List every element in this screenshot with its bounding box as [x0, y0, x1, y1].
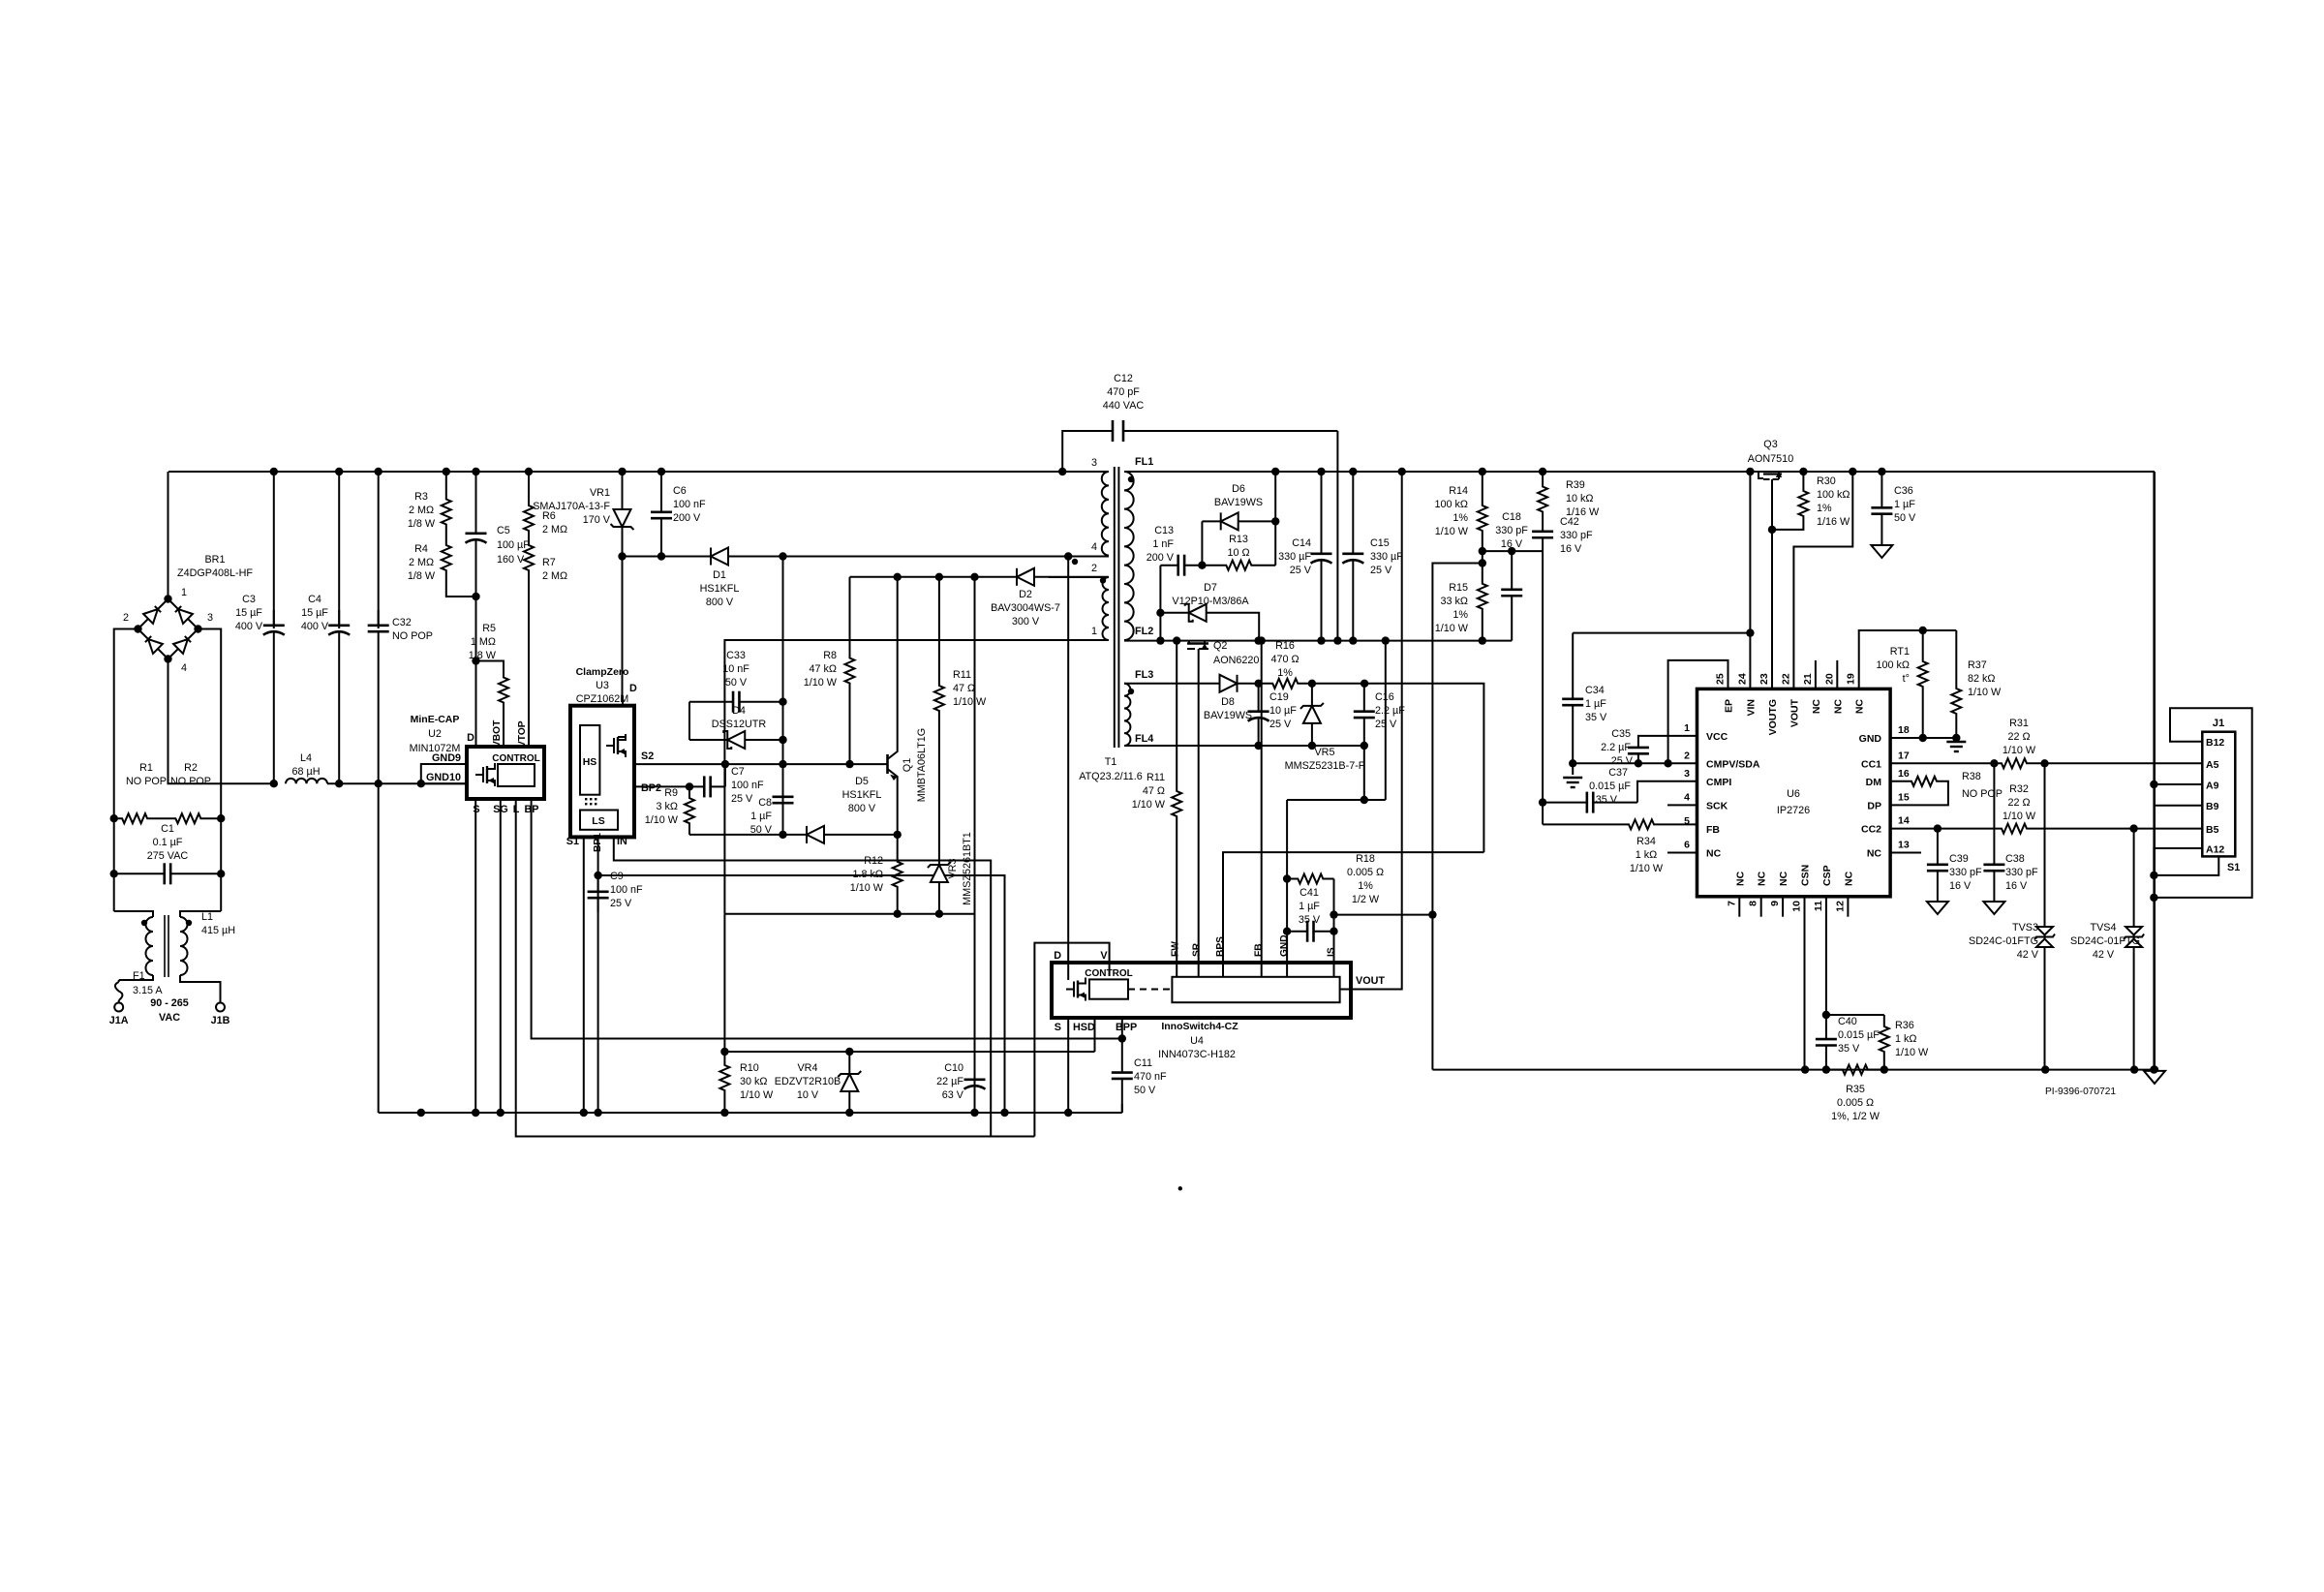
- wire SCK stub: [1667, 804, 1697, 806]
- wire U4 BPP pin down: [1121, 1018, 1123, 1039]
- wire right rail down to J1 area: [2154, 472, 2156, 1070]
- svg-text:1%, 1/2 W: 1%, 1/2 W: [1831, 1111, 1881, 1122]
- svg-text:100 µF: 100 µF: [497, 539, 530, 551]
- svg-text:CC1: CC1: [1861, 758, 1881, 770]
- svg-text:160 V: 160 V: [497, 554, 525, 566]
- svg-text:T1: T1: [1105, 756, 1117, 768]
- wire VCC line with C35: [1638, 736, 1697, 738]
- svg-text:B5: B5: [2206, 824, 2219, 836]
- svg-text:0.015 µF: 0.015 µF: [1838, 1029, 1880, 1041]
- wire VOUT pin column jog: [1793, 472, 1852, 689]
- svg-text:VBOT: VBOT: [492, 719, 503, 748]
- svg-text:J1B: J1B: [211, 1015, 230, 1026]
- svg-text:C33: C33: [726, 650, 746, 661]
- svg-text:25 V: 25 V: [610, 898, 632, 909]
- wire Q1 emitter to D5 line: [897, 784, 899, 835]
- svg-text:25 V: 25 V: [1375, 719, 1397, 730]
- svg-text:6: 6: [1684, 840, 1690, 851]
- wire C33 left bracket: [688, 702, 690, 740]
- svg-text:C6: C6: [673, 485, 687, 497]
- svg-text:PI-9396-070721: PI-9396-070721: [2045, 1087, 2116, 1097]
- capacitor C12 Y-cap: [1062, 431, 1113, 472]
- wire J1 B12 outer loop: [2154, 708, 2251, 898]
- svg-text:22 Ω: 22 Ω: [2007, 731, 2030, 743]
- svg-text:SD24C-01FTG: SD24C-01FTG: [1969, 935, 2038, 947]
- svg-text:20: 20: [1823, 673, 1835, 685]
- wire L1 left lead to F1: [119, 975, 153, 980]
- svg-text:C8: C8: [758, 797, 772, 809]
- svg-text:0.015 µF: 0.015 µF: [1589, 781, 1631, 792]
- wire D6R13 column to FL1: [1274, 472, 1276, 566]
- wire U2 S pin down: [474, 799, 476, 1113]
- IC U6 IP2726: [1697, 689, 1891, 896]
- svg-text:3.15 A: 3.15 A: [133, 985, 163, 996]
- svg-text:C10: C10: [944, 1062, 963, 1074]
- wire GND9: [421, 764, 467, 783]
- resistor R16 470: [1259, 679, 1312, 689]
- wire C10 column: [974, 577, 976, 1113]
- svg-text:330 pF: 330 pF: [1949, 867, 1982, 878]
- svg-text:J1A: J1A: [109, 1015, 129, 1026]
- svg-text:CSN: CSN: [1800, 865, 1812, 886]
- IC U3 ClampZero CPZ1062M: [570, 706, 634, 838]
- wire clamp column lower: [782, 702, 784, 835]
- svg-text:VR4: VR4: [797, 1062, 817, 1074]
- capacitor C1: [114, 873, 165, 874]
- wire FB pin up to FL2: [1261, 641, 1263, 977]
- svg-text:8: 8: [1748, 901, 1759, 906]
- wire VR1 to U3 D: [622, 557, 624, 696]
- capacitor C10: [974, 1065, 976, 1080]
- svg-text:U6: U6: [1787, 788, 1800, 800]
- wire FB line: [1543, 823, 1612, 825]
- wire FL3 line: [1124, 683, 1206, 685]
- wire J1 B9: [2154, 805, 2202, 807]
- svg-text:NO POP: NO POP: [126, 776, 167, 787]
- svg-text:C16: C16: [1375, 691, 1394, 703]
- svg-text:C19: C19: [1269, 691, 1289, 703]
- transformer T1 ATQ23.2/11.6: [1102, 472, 1109, 556]
- wire GND10 rail: [327, 782, 467, 784]
- svg-text:R32: R32: [2009, 783, 2029, 795]
- wire U2 L pin down to line2: [516, 799, 1035, 1137]
- svg-text:200 V: 200 V: [673, 512, 701, 524]
- svg-text:NC: NC: [1778, 871, 1789, 886]
- svg-text:100 kΩ: 100 kΩ: [1817, 489, 1850, 501]
- svg-text:A9: A9: [2206, 781, 2219, 792]
- svg-text:C15: C15: [1370, 537, 1390, 549]
- wire R39C42 column down to R34/FB: [1542, 551, 1544, 824]
- capacitor C18: [1511, 551, 1513, 590]
- svg-text:100 kΩ: 100 kΩ: [1435, 499, 1468, 510]
- svg-text:NO POP: NO POP: [170, 776, 211, 787]
- wire U2 SG pin down: [500, 799, 502, 1113]
- svg-text:22 µF: 22 µF: [936, 1076, 963, 1087]
- wire S2 line: [634, 763, 885, 765]
- wire CSN column: [1804, 897, 1806, 1070]
- svg-text:S1: S1: [2227, 862, 2240, 873]
- wire VIN column: [1749, 472, 1751, 689]
- svg-text:C14: C14: [1292, 537, 1311, 549]
- wire CC2 line: [1890, 828, 1995, 830]
- svg-text:R30: R30: [1817, 475, 1836, 487]
- svg-text:42 V: 42 V: [2093, 949, 2115, 961]
- wire T1 pin1 to 943 line: [724, 640, 1109, 914]
- svg-text:12: 12: [1834, 901, 1846, 912]
- svg-text:C5: C5: [497, 525, 510, 536]
- svg-text:275 VAC: 275 VAC: [147, 850, 189, 862]
- svg-text:24: 24: [1736, 673, 1748, 685]
- capacitor C42: [1542, 518, 1544, 532]
- svg-text:400 V: 400 V: [301, 621, 329, 632]
- transistor Q2 AON6220 sync FET: [1188, 641, 1190, 644]
- svg-text:1 µF: 1 µF: [1585, 698, 1606, 710]
- wire junction line C18: [1483, 550, 1543, 552]
- svg-text:CPZ1062M: CPZ1062M: [576, 693, 629, 705]
- svg-text:VAC: VAC: [159, 1012, 180, 1024]
- wire BR1 pin4 to GND10 rail: [168, 659, 274, 784]
- svg-text:23: 23: [1758, 673, 1770, 685]
- svg-text:35 V: 35 V: [1585, 712, 1607, 723]
- svg-text:TVS4: TVS4: [2090, 922, 2116, 934]
- svg-text:50 V: 50 V: [1894, 512, 1916, 524]
- svg-text:16 V: 16 V: [1501, 538, 1523, 550]
- svg-text:D6: D6: [1232, 483, 1245, 495]
- svg-text:1 µF: 1 µF: [750, 811, 772, 822]
- svg-text:25 V: 25 V: [1290, 565, 1312, 576]
- svg-text:1/10 W: 1/10 W: [1630, 863, 1664, 874]
- svg-text:R5: R5: [482, 623, 496, 634]
- fuse F1: [118, 980, 120, 982]
- wire J1 A12: [2154, 848, 2202, 875]
- transistor Q1 MMBTA06LT1G: [885, 763, 888, 765]
- wire R4 to C5 node: [446, 581, 476, 597]
- svg-text:300 V: 300 V: [1012, 616, 1040, 628]
- svg-text:35 V: 35 V: [1299, 914, 1321, 926]
- svg-text:200 V: 200 V: [1147, 552, 1175, 564]
- capacitor C39: [1937, 829, 1939, 850]
- wire NC19 to RT1 line: [1859, 630, 1957, 689]
- svg-text:BAV3004WS-7: BAV3004WS-7: [991, 602, 1060, 614]
- svg-text:NC: NC: [1811, 699, 1822, 715]
- resistor R34: [1612, 819, 1670, 829]
- svg-text:1%: 1%: [1358, 880, 1373, 892]
- svg-text:VIN: VIN: [1745, 699, 1757, 717]
- svg-text:25 V: 25 V: [1611, 755, 1634, 767]
- svg-text:1/8 W: 1/8 W: [469, 650, 497, 661]
- svg-text:NC: NC: [1757, 871, 1768, 886]
- resistor R7: [524, 535, 534, 581]
- diode D2 BAV3004WS-7 300 V: [850, 576, 1003, 578]
- resistor R2 NO POP: [156, 813, 222, 823]
- svg-text:50 V: 50 V: [725, 677, 748, 689]
- svg-text:NO POP: NO POP: [392, 630, 433, 642]
- svg-text:3: 3: [207, 612, 213, 624]
- wire drain column to U4 D pin: [1067, 557, 1069, 981]
- svg-text:C37: C37: [1608, 767, 1628, 779]
- svg-text:AON7510: AON7510: [1748, 453, 1793, 465]
- svg-text:EP: EP: [1724, 699, 1735, 713]
- svg-text:9: 9: [1769, 901, 1781, 906]
- resistor R35 shunt: [1826, 1065, 1884, 1075]
- wire VOUTG column: [1771, 487, 1773, 689]
- svg-text:1%: 1%: [1452, 609, 1468, 621]
- wire GND10 into U2: [421, 782, 467, 784]
- svg-text:EDZVT2R10B: EDZVT2R10B: [775, 1076, 841, 1087]
- capacitor C37: [1543, 802, 1587, 804]
- svg-text:10 Ω: 10 Ω: [1227, 547, 1249, 559]
- resistor R30: [1802, 472, 1804, 484]
- svg-text:1/2 W: 1/2 W: [1352, 894, 1380, 905]
- wire C9 node to ground bus: [598, 875, 1005, 1113]
- svg-text:16 V: 16 V: [2005, 880, 2028, 892]
- svg-text:14: 14: [1898, 815, 1910, 827]
- capacitor C40: [1825, 1015, 1827, 1039]
- capacitor C41: [1287, 931, 1307, 933]
- wire clamp column: [782, 557, 784, 702]
- svg-text:R15: R15: [1449, 582, 1468, 594]
- svg-text:100 kΩ: 100 kΩ: [1877, 659, 1910, 671]
- svg-text:INN4073C-H182: INN4073C-H182: [1158, 1049, 1236, 1060]
- svg-text:ATQ23.2/11.6: ATQ23.2/11.6: [1079, 771, 1143, 782]
- wire C16 column down to GND line: [1363, 746, 1365, 800]
- stray dot: [1178, 1186, 1182, 1190]
- svg-text:BPP: BPP: [1116, 1022, 1137, 1033]
- wire U3 D pin: [622, 695, 624, 706]
- wire U3 BP1 down: [597, 837, 599, 1113]
- resistor R1 NO POP: [114, 813, 156, 823]
- svg-text:U3: U3: [596, 680, 609, 691]
- svg-text:R3: R3: [414, 491, 428, 503]
- svg-text:15 µF: 15 µF: [235, 607, 262, 619]
- svg-text:15: 15: [1898, 791, 1910, 803]
- svg-text:4: 4: [1684, 791, 1690, 803]
- svg-text:MMSZ5231B-7-F: MMSZ5231B-7-F: [1285, 760, 1365, 772]
- terminal J1A: [114, 1003, 123, 1012]
- svg-text:S: S: [1055, 1022, 1061, 1033]
- svg-text:C13: C13: [1154, 525, 1174, 536]
- svg-text:16 V: 16 V: [1949, 880, 1972, 892]
- resistor R38 NO POP: [1890, 781, 1910, 782]
- svg-text:R13: R13: [1229, 534, 1248, 545]
- svg-text:C3: C3: [242, 594, 256, 605]
- svg-text:R2: R2: [184, 762, 198, 774]
- svg-text:J1: J1: [2213, 718, 2225, 729]
- resistor R15: [1478, 564, 1487, 630]
- wire top bus rectified +: [168, 471, 1109, 473]
- svg-text:CC2: CC2: [1861, 824, 1881, 836]
- svg-text:C42: C42: [1560, 516, 1579, 528]
- connector J1: [2202, 732, 2235, 857]
- wire NC6 stub: [1667, 852, 1697, 854]
- capacitor C32 NO POP: [378, 472, 380, 628]
- svg-text:R35: R35: [1846, 1084, 1865, 1095]
- svg-text:25 V: 25 V: [1370, 565, 1392, 576]
- thermistor RT1: [1922, 630, 1924, 651]
- svg-text:2: 2: [1684, 750, 1690, 761]
- capacitor C34: [1572, 633, 1574, 684]
- IC U2 MinE-CAP MIN1072M: [467, 747, 544, 799]
- wire U2 BP pin down to BPP line: [532, 799, 1122, 1039]
- svg-text:R9: R9: [664, 787, 678, 799]
- svg-text:25: 25: [1715, 673, 1727, 685]
- svg-text:IN: IN: [617, 836, 627, 847]
- svg-text:C36: C36: [1894, 485, 1913, 497]
- svg-text:BPS: BPS: [1215, 936, 1226, 957]
- wire T1 pin2 line stub: [1049, 576, 1109, 578]
- svg-text:1%: 1%: [1277, 667, 1293, 679]
- IC U4 InnoSwitch4-CZ INN4073C-H182: [1052, 963, 1351, 1018]
- capacitor C7: [689, 785, 704, 787]
- svg-text:4: 4: [181, 662, 187, 674]
- svg-text:VR5: VR5: [1314, 747, 1334, 758]
- svg-text:100 nF: 100 nF: [731, 780, 764, 791]
- svg-text:FL4: FL4: [1135, 733, 1153, 745]
- svg-text:R10: R10: [740, 1062, 759, 1074]
- wire VIN line from C34: [1573, 632, 1750, 634]
- svg-text:15 µF: 15 µF: [301, 607, 328, 619]
- svg-text:22: 22: [1780, 673, 1791, 685]
- wire HSD line: [724, 1051, 1094, 1053]
- svg-text:22 Ω: 22 Ω: [2007, 797, 2030, 809]
- svg-text:11: 11: [1813, 901, 1824, 911]
- resistor R32: [1995, 824, 2033, 834]
- capacitor C19: [1258, 684, 1260, 712]
- resistor R14: [1482, 472, 1483, 494]
- svg-text:SMAJ170A-13-F: SMAJ170A-13-F: [533, 501, 610, 512]
- wire CMPV line: [1573, 762, 1697, 764]
- svg-text:800 V: 800 V: [848, 803, 876, 814]
- svg-text:1/8 W: 1/8 W: [408, 570, 436, 582]
- svg-text:415 µH: 415 µH: [201, 925, 235, 936]
- svg-text:2: 2: [1091, 563, 1097, 574]
- wire BR1 pin1 to top bus: [168, 472, 169, 599]
- svg-text:25 V: 25 V: [731, 793, 753, 805]
- svg-text:330 µF: 330 µF: [1370, 551, 1403, 563]
- svg-text:1/10 W: 1/10 W: [804, 677, 838, 689]
- svg-text:10: 10: [1791, 901, 1803, 912]
- svg-text:F1: F1: [133, 970, 145, 982]
- svg-text:GND: GND: [1859, 733, 1882, 745]
- resistor R31: [1995, 758, 2033, 768]
- svg-text:1 MΩ: 1 MΩ: [471, 636, 496, 648]
- svg-text:SR: SR: [1192, 942, 1203, 957]
- svg-text:R37: R37: [1968, 659, 1987, 671]
- svg-text:S2: S2: [641, 750, 654, 762]
- svg-text:19: 19: [1846, 673, 1857, 685]
- wire C32 primary ground bus: [379, 1112, 1122, 1114]
- svg-text:D5: D5: [855, 776, 869, 787]
- svg-text:1/10 W: 1/10 W: [2003, 811, 2036, 822]
- wire line2 right end up to U4 V: [1034, 943, 1109, 1137]
- wire CC1 line: [1890, 762, 1995, 764]
- svg-text:1: 1: [1684, 722, 1690, 734]
- svg-text:10 kΩ: 10 kΩ: [1566, 493, 1593, 505]
- svg-text:R14: R14: [1449, 485, 1468, 497]
- svg-text:R38: R38: [1962, 771, 1981, 782]
- resistor R18 shunt: [1287, 874, 1333, 884]
- wire GND column up: [1286, 800, 1288, 977]
- svg-text:B9: B9: [2206, 801, 2219, 812]
- wire C32 column to primary ground bus: [378, 783, 380, 1113]
- svg-text:C11: C11: [1134, 1057, 1152, 1069]
- svg-text:S1: S1: [566, 836, 579, 847]
- wire FL2 line: [1124, 640, 1512, 642]
- svg-text:RT1: RT1: [1890, 646, 1910, 658]
- resistor R9: [685, 786, 694, 835]
- capacitor C3: [273, 472, 275, 628]
- svg-text:FL3: FL3: [1135, 669, 1153, 681]
- svg-text:35 V: 35 V: [1838, 1043, 1860, 1055]
- capacitor C8: [782, 775, 784, 797]
- svg-text:C12: C12: [1114, 373, 1133, 384]
- svg-text:VR3: VR3: [947, 858, 959, 878]
- diode D6 BAV19WS: [1201, 521, 1203, 565]
- svg-text:4: 4: [1091, 541, 1097, 553]
- diode D8 BAV19WS: [1206, 683, 1251, 685]
- capacitor C38: [1993, 763, 1995, 850]
- capacitor C33: [688, 701, 690, 703]
- svg-text:HSD: HSD: [1073, 1022, 1095, 1033]
- diode D7 V12P10-M3/86A: [1156, 609, 1164, 617]
- svg-text:1%: 1%: [1452, 512, 1468, 524]
- capacitor C11: [1121, 1039, 1123, 1073]
- wire C1 to L1: [113, 873, 115, 911]
- svg-text:Q1: Q1: [902, 758, 913, 772]
- inductor L1 common mode choke: [114, 911, 153, 917]
- zener VR4 EDZVT2R10B 10 V: [848, 1052, 850, 1065]
- wire NC21 stub: [1815, 660, 1817, 689]
- svg-text:TVS3: TVS3: [2012, 922, 2038, 934]
- wire T1 pin4 line: [1068, 556, 1109, 558]
- wire primary return 943 line: [724, 913, 974, 915]
- wire CMPI line with C37: [1637, 781, 1697, 803]
- svg-text:3: 3: [1091, 457, 1097, 469]
- svg-text:17: 17: [1898, 750, 1910, 761]
- wire R7 to U2 VTOP: [528, 581, 530, 747]
- svg-text:35 V: 35 V: [1596, 794, 1618, 806]
- svg-text:D: D: [467, 732, 474, 744]
- wire U4 HSD pin down: [1094, 1018, 1096, 1052]
- svg-text:IS: IS: [1327, 947, 1337, 957]
- wire L1 right lead to J1B: [180, 975, 221, 1002]
- TVS4 SD24C-01FTG: [2133, 829, 2135, 920]
- capacitor C36: [1881, 472, 1882, 494]
- zener VR1 SMAJ170A-13-F: [622, 472, 624, 500]
- capacitor C13: [1159, 566, 1161, 641]
- wire U3 IN pin: [614, 837, 991, 1136]
- svg-text:HS1KFL: HS1KFL: [842, 789, 882, 801]
- wire U6 bottom NC stubs: [1738, 897, 1740, 917]
- svg-text:1 kΩ: 1 kΩ: [1636, 849, 1657, 861]
- capacitor C16: [1363, 684, 1365, 712]
- wire Q2 source to SR: [1198, 649, 1200, 977]
- svg-text:2 MΩ: 2 MΩ: [542, 524, 567, 536]
- svg-text:C7: C7: [731, 766, 745, 778]
- svg-text:VCC: VCC: [1706, 731, 1728, 743]
- svg-text:330 pF: 330 pF: [1495, 525, 1528, 536]
- capacitor C5: [475, 472, 477, 519]
- svg-text:DM: DM: [1866, 777, 1882, 788]
- wire R15 divider sense column: [1432, 564, 1482, 1070]
- capacitor C35: [1637, 738, 1639, 748]
- svg-text:R31: R31: [2009, 718, 2029, 729]
- svg-text:2 MΩ: 2 MΩ: [409, 505, 434, 516]
- svg-text:21: 21: [1802, 673, 1814, 685]
- svg-text:DSS12UTR: DSS12UTR: [712, 719, 767, 730]
- resistor R39: [1542, 472, 1544, 480]
- wire J1 A9: [2154, 783, 2202, 785]
